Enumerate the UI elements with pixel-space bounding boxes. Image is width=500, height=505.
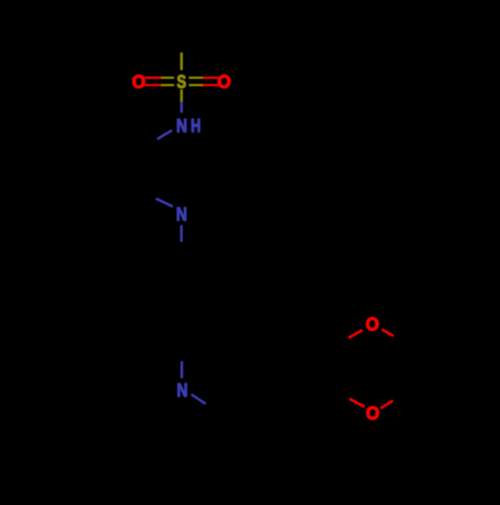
svg-text:O: O xyxy=(132,72,146,92)
bond O4-CH3 (red O half) xyxy=(381,401,393,409)
svg-text:S: S xyxy=(177,72,187,92)
bond S-N (olive S half) xyxy=(180,90,183,102)
bond O3-CH2 (red O half) xyxy=(348,330,362,338)
bond N2-C4 (blue N half) xyxy=(180,225,183,242)
svg-text:O: O xyxy=(217,72,231,92)
bond N3-C6 (blue N half) xyxy=(191,394,206,404)
bond S=O left, line 2 (olive S half) xyxy=(162,84,175,86)
bond O3-CH3 (red O half) xyxy=(382,329,394,336)
bond S=O right, line 2 (red O half) xyxy=(203,84,219,86)
bond O4-CH2 (red O half) xyxy=(350,399,365,407)
svg-text:N: N xyxy=(176,204,187,224)
svg-text:N: N xyxy=(176,116,187,136)
bond C3-N2 (blue N half) xyxy=(156,199,173,207)
svg-text:O: O xyxy=(366,315,380,335)
svg-text:H: H xyxy=(191,116,201,136)
bond S=O left, line 2 (red O half) xyxy=(145,84,162,86)
bond S=O left, line 1 (red O half) xyxy=(145,77,162,79)
bond S=O left, line 1 (olive S half) xyxy=(162,77,175,79)
svg-text:N: N xyxy=(177,381,188,401)
bond S-N (blue N half) xyxy=(180,102,183,113)
bond N1-C2 (blue N half) xyxy=(157,130,172,139)
bond S=O right, line 1 (red O half) xyxy=(203,77,219,79)
bond C5-N3 (blue N half) xyxy=(181,361,184,378)
svg-text:O: O xyxy=(366,404,380,424)
bond S=O right, line 2 (olive S half) xyxy=(189,84,203,86)
bond CH3-S (S half, olive) xyxy=(180,53,183,71)
bond S=O right, line 1 (olive S half) xyxy=(189,77,203,79)
